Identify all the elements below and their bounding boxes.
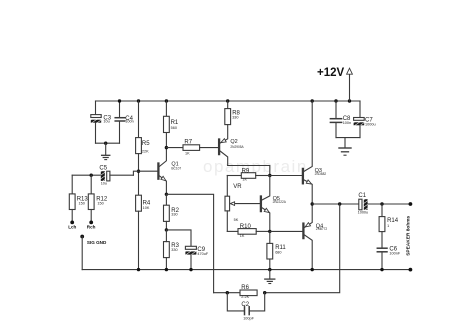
wire output line [312, 203, 359, 205]
svg-text:2.2K: 2.2K [241, 295, 249, 299]
capacitor C1 [358, 193, 369, 214]
node ground rail R3 [165, 268, 168, 271]
capacitor C7 [354, 101, 376, 138]
resistor R12 [88, 175, 108, 221]
node output [311, 202, 314, 205]
resistor R2 [164, 194, 180, 230]
svg-text:R7: R7 [184, 140, 192, 146]
node Q1 collector / R7 [165, 146, 168, 149]
node Q4 collector on rail [311, 268, 314, 271]
svg-text:10u: 10u [101, 181, 107, 185]
svg-text:2SB772: 2SB772 [316, 227, 328, 231]
svg-text:100n: 100n [125, 120, 133, 124]
wire C3-C4 bottom [96, 142, 120, 144]
svg-text:+12V: +12V [317, 67, 345, 79]
capacitor C6 [377, 247, 401, 270]
svg-text:10u: 10u [103, 120, 109, 124]
wire emitter to feedback [166, 194, 213, 292]
wire bottom ground rail [82, 269, 410, 271]
resistor R10 [227, 224, 269, 238]
node speaker - terminal [409, 268, 413, 272]
svg-text:1K: 1K [185, 152, 190, 156]
node Lch terminal [70, 221, 74, 225]
wire top supply rail [96, 100, 361, 102]
transistor Q2 [219, 125, 244, 166]
resistor R9 [227, 169, 269, 182]
svg-text:2N2905A: 2N2905A [230, 145, 244, 149]
svg-text:5K: 5K [234, 218, 239, 222]
node R14 tap [380, 202, 383, 205]
svg-text:1000u: 1000u [365, 123, 376, 127]
resistor R1 [164, 101, 179, 133]
wire node A to Q3 base [270, 175, 302, 177]
svg-text:150: 150 [79, 201, 85, 205]
svg-text:R5: R5 [142, 141, 150, 147]
transistor Q1 [158, 133, 181, 195]
transistor Q5 [261, 176, 287, 232]
node rail C8 [334, 99, 337, 102]
node R2/R3/C9 [165, 228, 168, 231]
capacitor C2 [227, 293, 264, 321]
svg-text:2N2222A: 2N2222A [273, 200, 287, 204]
wire node to Q4 base [270, 230, 303, 232]
resistor R11 [267, 231, 287, 269]
svg-text:C2: C2 [241, 302, 249, 308]
node speaker + terminal [409, 202, 413, 206]
node C6 ground rail [380, 268, 383, 271]
node Rch terminal [89, 221, 93, 225]
wire feedback left segment [214, 292, 240, 294]
capacitor C3 [91, 101, 112, 143]
node bias divider / base [137, 170, 140, 173]
wire input jog [133, 171, 157, 175]
transistor Q4 [303, 204, 327, 270]
node rail Q3 collector [311, 99, 314, 102]
svg-text:330: 330 [171, 248, 177, 252]
node Q5 emitter / R10 / R11 / Q4 base [268, 230, 271, 233]
potentiometer VR [225, 176, 260, 232]
svg-text:100n: 100n [343, 121, 351, 125]
node R12 top [90, 174, 93, 177]
resistor R14 [379, 204, 399, 248]
node ground rail R4 [137, 268, 140, 271]
wire C7/C8 bottom [336, 137, 360, 139]
wire input line [72, 174, 101, 176]
svg-text:SIG GND: SIG GND [87, 240, 107, 245]
node rail R5 [137, 99, 140, 102]
node C3/C4 ground junction [104, 142, 107, 145]
resistor R7 [166, 140, 218, 156]
svg-text:10K: 10K [143, 206, 150, 210]
svg-text:Lch: Lch [68, 225, 76, 230]
node rail R1 [165, 99, 168, 102]
svg-text:330: 330 [232, 116, 238, 120]
capacitor C9 [166, 230, 208, 270]
node Q1 emitter [165, 193, 168, 196]
node feedback left [226, 291, 229, 294]
node A (Q3 base) [268, 174, 271, 177]
svg-text:22K: 22K [142, 149, 149, 153]
node rail C4 [118, 99, 121, 102]
ground (main) [265, 270, 275, 284]
svg-text:C1: C1 [358, 193, 366, 199]
svg-text:R10: R10 [240, 224, 252, 230]
svg-text:2SD882: 2SD882 [315, 172, 327, 176]
wire Q2 collector to node A [228, 166, 270, 176]
ground (input filter) [102, 143, 110, 159]
svg-text:SPEAKER 8ohms: SPEAKER 8ohms [405, 215, 411, 255]
node R11 ground rail [268, 268, 271, 271]
svg-text:100nF: 100nF [389, 251, 400, 255]
node feedback right [263, 291, 266, 294]
svg-text:330: 330 [171, 213, 177, 217]
svg-text:150: 150 [97, 201, 103, 205]
capacitor C5 [99, 166, 133, 186]
svg-text:1: 1 [387, 224, 389, 228]
resistor R3 [164, 230, 180, 270]
svg-text:Rch: Rch [87, 225, 96, 230]
node rail +12V [348, 99, 351, 102]
resistor R6 [240, 285, 257, 299]
node rail R8 [226, 99, 229, 102]
svg-text:680: 680 [275, 250, 281, 254]
svg-text:C5: C5 [99, 166, 107, 172]
node SIG GND terminal [80, 235, 84, 239]
resistor R5 [136, 101, 151, 171]
wire feedback vertical right [265, 204, 340, 293]
svg-text:100pF: 100pF [243, 317, 254, 321]
svg-text:1000u: 1000u [358, 210, 369, 214]
ground (supply) [339, 138, 351, 156]
svg-text:470uF: 470uF [197, 252, 208, 256]
svg-text:560: 560 [171, 126, 177, 130]
svg-text:VR: VR [233, 184, 242, 190]
node ground rail C9 [189, 268, 192, 271]
svg-text:BC107: BC107 [171, 166, 181, 170]
svg-text:R6: R6 [241, 285, 249, 291]
resistor R8 [225, 101, 241, 125]
transistor Q3 [303, 101, 326, 204]
capacitor C8 [330, 101, 351, 138]
resistor R4 [136, 171, 151, 269]
node feedback tap [338, 202, 341, 205]
svg-text:R9: R9 [242, 169, 250, 175]
resistor R13 [69, 175, 88, 221]
supply +12V symbol [317, 67, 352, 101]
svg-text:1K: 1K [242, 178, 247, 182]
wire SIG GND to ground rail [81, 237, 83, 270]
svg-text:1K: 1K [240, 234, 245, 238]
capacitor C4 [115, 101, 134, 143]
